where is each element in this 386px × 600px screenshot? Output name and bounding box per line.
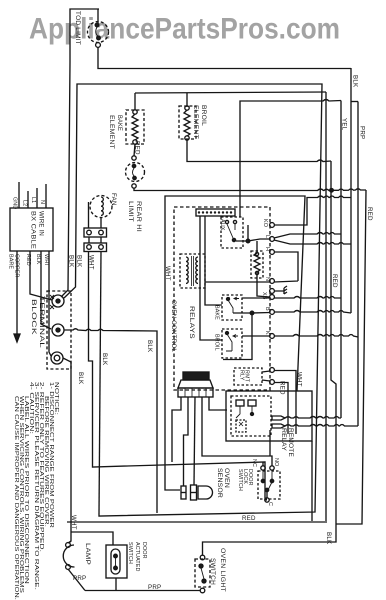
control board pin K <box>270 334 275 339</box>
wire broil return to bus <box>187 140 331 162</box>
wire tap to PRP bus <box>351 101 358 103</box>
wire red lead <box>30 251 52 300</box>
TOD limit switch (dashed circle) <box>88 22 109 43</box>
bake element lead top <box>134 93 136 110</box>
wire NC stub <box>262 462 264 466</box>
svg-text:YEL: YEL <box>341 118 348 131</box>
wire PRP bottom run <box>85 590 200 592</box>
svg-text:N: N <box>264 277 270 281</box>
svg-text:C: C <box>267 502 273 506</box>
rear hi limit pin bottom <box>132 184 136 188</box>
transformer dashed box <box>180 254 205 288</box>
TOD limit switch box <box>70 9 99 62</box>
svg-text:BLK: BLK <box>352 75 359 88</box>
control board pin rly2 <box>270 380 275 385</box>
svg-text:PRP: PRP <box>148 584 161 591</box>
svg-text:WHT: WHT <box>296 372 303 387</box>
wire left trunk BLK <box>61 62 70 297</box>
wire junction to pin L <box>248 239 270 241</box>
wire clock pin3 to sensor <box>194 397 195 485</box>
door lock NC pin <box>261 466 265 470</box>
svg-text:RED: RED <box>279 381 286 395</box>
transformer secondary coil <box>196 257 198 283</box>
svg-text:OVEN CONTROL: OVEN CONTROL <box>170 300 177 352</box>
svg-text:WIRE IN: WIRE IN <box>38 211 45 236</box>
sensor circuit solid box <box>226 391 312 441</box>
svg-text:BLK: BLK <box>101 353 108 366</box>
svg-text:BLK: BLK <box>146 340 153 353</box>
wire pin L fanout upper <box>274 233 341 239</box>
wire sensor box drop <box>311 441 313 521</box>
oven control outer box <box>165 196 305 490</box>
door lock contacts <box>261 479 264 482</box>
svg-text:PRP: PRP <box>73 575 86 582</box>
wire RED bottom run <box>67 521 327 523</box>
wire AUX to junction <box>236 225 248 241</box>
fan coil <box>101 197 103 215</box>
bake element pins <box>133 110 137 114</box>
svg-text:SWITCH: SWITCH <box>209 558 216 585</box>
svg-text:BLK: BLK <box>68 255 75 268</box>
wire bare copper lead <box>16 251 18 334</box>
svg-text:BX CABLE: BX CABLE <box>30 211 37 249</box>
clock connector (filled) <box>183 372 209 380</box>
svg-text:BARE: BARE <box>8 254 14 269</box>
control board pin B <box>270 310 275 315</box>
svg-text:GND: GND <box>12 197 18 209</box>
wire BAKE contact to pin XB <box>228 297 270 299</box>
svg-text:ELEMENT: ELEMENT <box>108 115 115 149</box>
svg-text:COPPER: COPPER <box>14 254 20 277</box>
svg-text:DOOR: DOOR <box>141 542 147 559</box>
svg-text:BLOCK: BLOCK <box>30 299 37 336</box>
svg-text:N: N <box>39 200 45 204</box>
svg-text:BROIL: BROIL <box>214 334 220 351</box>
wire junction to broil coil <box>223 313 252 360</box>
fan motor (dashed circle) <box>90 196 112 218</box>
transformer core <box>192 256 194 286</box>
fan connector plug 2 <box>84 243 107 252</box>
broil element pins <box>185 106 189 110</box>
bus YEL (x341) <box>340 101 342 419</box>
wire rail to YEL bus <box>240 100 341 218</box>
svg-text:RED: RED <box>366 207 373 221</box>
control board pin rly1 <box>270 368 275 373</box>
relay RMT RLY dashed box <box>234 368 262 385</box>
relay BAKE dashed box <box>222 295 242 320</box>
wire bake/broil feed rail <box>135 92 326 93</box>
svg-text:RED: RED <box>25 254 31 266</box>
terminal top <box>52 295 64 307</box>
wire pin KO to BLK bus <box>274 196 351 225</box>
svg-text:WHT: WHT <box>164 266 171 281</box>
svg-text:RED: RED <box>134 141 141 155</box>
TOD bottom terminal <box>96 43 101 48</box>
rear hi limit pin top <box>132 156 136 160</box>
wire terminal mid BLK run <box>64 329 157 513</box>
wire rly loop 1 <box>274 371 296 435</box>
wire clock pin2 to sensor <box>184 397 189 486</box>
svg-text:SENSOR: SENSOR <box>216 468 223 498</box>
pin GND wire and chassis ground <box>274 286 287 294</box>
wire transformer to pin N <box>205 281 270 283</box>
wire TOD top lead <box>97 9 99 24</box>
door lock NO pin <box>270 466 274 470</box>
control board pin G <box>270 289 275 294</box>
bus broil-return/BLK bottom (x334) <box>203 161 337 555</box>
wire pin K to PRP bus <box>274 335 358 338</box>
svg-text:LIMIT: LIMIT <box>127 201 134 222</box>
svg-text:SWITCH: SWITCH <box>127 542 133 564</box>
door lock C pin <box>266 492 268 498</box>
remote relay internals <box>236 400 244 406</box>
wire blk lead <box>41 251 51 329</box>
svg-text:BLK: BLK <box>76 255 83 268</box>
svg-text:XB: XB <box>261 292 267 300</box>
svg-text:OVEN LIGHT: OVEN LIGHT <box>219 548 226 592</box>
svg-text:CAN CAUSE IMPROPER AND DANGERO: CAN CAUSE IMPROPER AND DANGEROUS OPERATI… <box>13 396 19 600</box>
svg-text:KO: KO <box>262 219 268 227</box>
ground arrow bare copper <box>14 334 20 342</box>
wire-in supply stub GND <box>18 182 20 208</box>
svg-text:LAMP: LAMP <box>84 543 91 565</box>
resistor in control (dashed) <box>251 251 263 278</box>
broil element dashed box <box>179 106 196 139</box>
clock connector shroud <box>178 380 213 388</box>
svg-text:RELAY: RELAY <box>280 428 287 451</box>
wire wht lead <box>49 251 51 356</box>
svg-text:REMOTE: REMOTE <box>287 428 294 457</box>
wire clock pin1 <box>172 397 181 462</box>
terminal bottom <box>51 352 63 364</box>
svg-text:WHT: WHT <box>43 254 49 267</box>
wire pin XB to bus <box>274 297 341 299</box>
svg-text:TERMINAL: TERMINAL <box>38 296 45 349</box>
main circuit box <box>64 84 322 516</box>
wire rmt rly to pins <box>262 371 270 381</box>
bus PRP right (x357) <box>357 102 359 427</box>
wire bake to rear hi limit <box>134 144 135 156</box>
rear hi limit thermostat (dashed circle) <box>126 163 145 182</box>
wire clock pin4 to door lock NO <box>202 397 272 466</box>
control board pin L <box>270 237 275 242</box>
relay out lug 1 <box>272 416 285 420</box>
wire BAKE relay to pin B <box>233 312 270 315</box>
control board connector strip <box>196 209 235 216</box>
wire pin H to bus <box>274 252 298 282</box>
TOD contact dots <box>95 23 99 27</box>
wire remote relay out 1 <box>285 417 341 419</box>
relay out lug 2 <box>272 424 285 428</box>
fan connector plug 1 <box>84 228 107 237</box>
svg-text:BAKE: BAKE <box>214 305 220 320</box>
control board pin H <box>270 250 275 255</box>
bus BLK right (x350) <box>350 68 352 313</box>
wire relay coil drop 1 <box>205 216 222 305</box>
remote relay dashed box <box>231 396 271 436</box>
door actuated switch box <box>106 545 127 578</box>
bus bake-feed (x327) <box>325 92 327 521</box>
control board pin XB <box>270 295 275 300</box>
svg-text:NO: NO <box>273 458 279 466</box>
relay BROIL dashed box <box>222 329 242 358</box>
control board pin N <box>270 279 275 284</box>
wire fan lead B down <box>99 252 101 515</box>
svg-text:RMT: RMT <box>244 370 250 383</box>
wire TOD output to BLK bus <box>98 47 351 69</box>
wire rly loop 2 <box>274 383 288 435</box>
oven control dashed box <box>174 207 270 390</box>
wire-in box <box>10 208 53 251</box>
control board pin KO <box>270 223 275 228</box>
wire relay coil drop 2 <box>200 216 222 340</box>
relay BROIL contacts <box>226 332 229 335</box>
relay AUX contacts <box>225 220 228 223</box>
wire pin B to BLK bus <box>274 311 351 314</box>
wire pin L fanout lower <box>274 240 351 244</box>
svg-text:AUX: AUX <box>219 219 225 231</box>
wire remote relay out 2 <box>285 425 358 427</box>
wire fan lead A to door lock <box>89 252 268 501</box>
clock pin strip <box>178 388 213 397</box>
svg-text:TOD LIMIT: TOD LIMIT <box>74 11 81 45</box>
wire clock pin5 <box>209 397 227 410</box>
oven sensor plug <box>181 486 186 499</box>
svg-text:DOOR: DOOR <box>247 469 253 486</box>
svg-text:RED: RED <box>242 515 256 522</box>
svg-text:RED: RED <box>331 274 338 288</box>
bake element dashed box <box>126 110 144 144</box>
svg-text:RELAYS: RELAYS <box>188 306 195 339</box>
svg-text:L1: L1 <box>30 197 36 203</box>
svg-text:ELEMENT: ELEMENT <box>192 105 199 139</box>
wire-in supply stub N <box>45 184 47 208</box>
svg-text:WHT: WHT <box>70 515 77 530</box>
svg-text:K: K <box>264 331 270 335</box>
door lock switch dashed box <box>258 471 280 499</box>
wire lamp feeds <box>68 541 85 591</box>
resistor broil element <box>184 110 190 136</box>
svg-text:FAN: FAN <box>110 193 117 206</box>
wire-in supply stub L1 <box>36 188 38 208</box>
wire BROIL contact to pin K <box>242 335 270 337</box>
svg-text:L: L <box>264 235 270 238</box>
oven sensor bulb <box>198 486 213 499</box>
fan lead right <box>100 217 102 228</box>
fan lead left <box>88 202 90 228</box>
svg-text:NC: NC <box>251 459 257 467</box>
resistor bake element <box>132 114 138 140</box>
svg-text:PRP: PRP <box>359 126 366 139</box>
svg-text:WHT: WHT <box>88 255 95 270</box>
transformer primary coil <box>186 257 188 283</box>
lamp <box>63 545 74 567</box>
oven light switch pins <box>200 555 205 560</box>
relay BAKE contacts <box>227 298 230 301</box>
wire door actuated switch top <box>71 532 113 545</box>
svg-text:B: B <box>264 307 270 311</box>
svg-text:BROIL: BROIL <box>200 105 207 126</box>
terminal middle <box>52 324 64 336</box>
terminal block dashed box <box>47 291 71 369</box>
oven light switch box <box>195 559 210 587</box>
svg-text:REAR HI: REAR HI <box>135 201 142 232</box>
svg-text:BAKE: BAKE <box>116 115 123 131</box>
wire terminal bottom WHT run <box>63 358 71 543</box>
wire door actuated switch bottom <box>115 578 117 591</box>
junction dot <box>246 239 250 243</box>
broil element lead top <box>186 93 188 108</box>
svg-text:BLK: BLK <box>35 254 41 265</box>
relay AUX dashed box <box>221 217 243 248</box>
svg-text:H: H <box>264 247 270 251</box>
svg-text:BLK: BLK <box>325 532 332 545</box>
wire relay to door lock NO <box>269 430 271 456</box>
wire-in supply stub L2 <box>27 191 29 208</box>
wire red rail to RED bus <box>134 188 366 191</box>
svg-text:BLK: BLK <box>77 372 84 385</box>
svg-text:L2: L2 <box>22 200 28 206</box>
bus RED right (x363) <box>336 190 366 524</box>
svg-text:OVEN: OVEN <box>223 468 230 488</box>
svg-text:ACTUATED: ACTUATED <box>134 542 140 571</box>
